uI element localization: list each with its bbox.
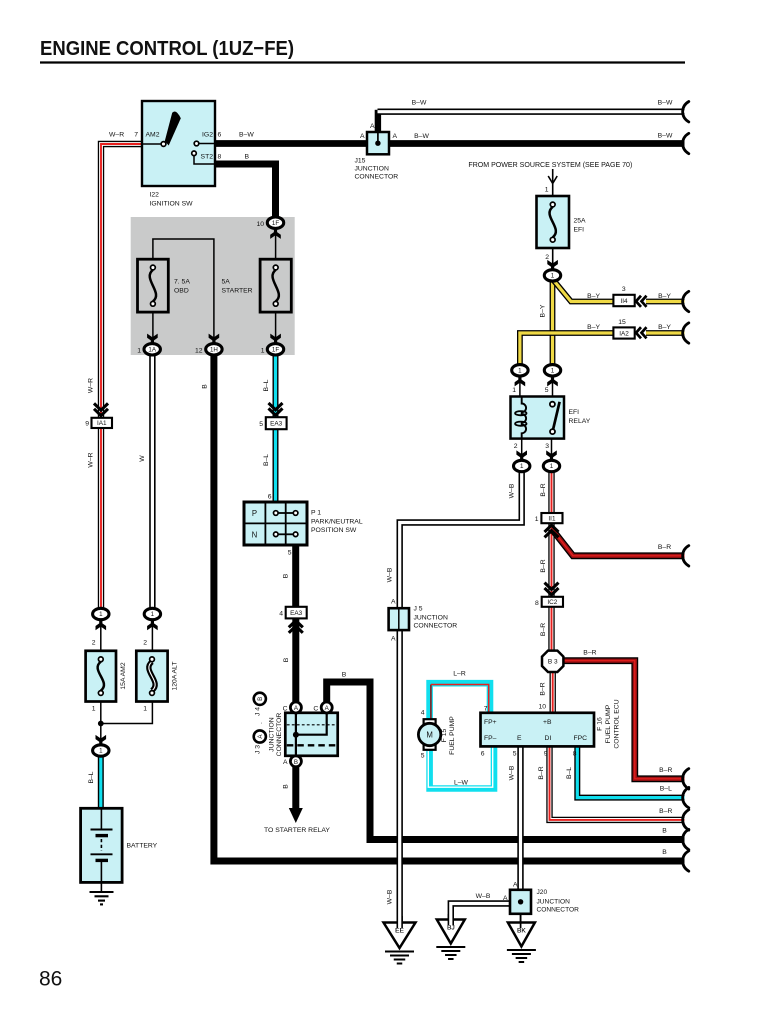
svg-text:B–R: B–R xyxy=(583,650,596,657)
svg-text:EFI: EFI xyxy=(574,226,585,233)
svg-text:B–R: B–R xyxy=(538,766,545,779)
svg-text:STARTER: STARTER xyxy=(222,287,253,294)
connector IA2 (pin 15) xyxy=(613,327,634,338)
wire B-W: ignition IG2 to J15 and right edge (thick) xyxy=(215,140,685,147)
wire W-B: ECU E pin down to J20 xyxy=(517,746,523,890)
arrowhead to starter relay xyxy=(289,808,303,823)
svg-text:B: B xyxy=(257,697,264,701)
wire B: connector 1H down and right to edge xyxy=(214,354,685,861)
svg-text:120A ALT: 120A ALT xyxy=(172,662,179,691)
wire B-L: to battery xyxy=(98,756,104,809)
svg-text:1F: 1F xyxy=(272,347,279,354)
svg-text:1: 1 xyxy=(551,368,555,375)
svg-text:15: 15 xyxy=(618,319,626,326)
battery xyxy=(81,808,123,882)
svg-text:W–R: W–R xyxy=(88,378,95,393)
svg-text:C: C xyxy=(313,705,318,712)
svg-text:1: 1 xyxy=(518,368,522,375)
svg-text:B: B xyxy=(245,154,250,161)
wire thin: J20 to BK ground xyxy=(520,914,522,923)
curl: B ground bus 1 xyxy=(683,829,689,849)
curl: B-L FPC xyxy=(683,787,689,807)
svg-text:7: 7 xyxy=(134,132,138,139)
junction connector J15 xyxy=(367,132,389,154)
ground BJ xyxy=(437,920,465,944)
svg-text:5A: 5A xyxy=(222,278,231,285)
connector ovals above EFI relay xyxy=(512,365,528,376)
svg-text:B–R: B–R xyxy=(540,682,547,695)
svg-text:W–R: W–R xyxy=(88,452,95,467)
svg-text:W–B: W–B xyxy=(509,483,516,498)
svg-text:M: M xyxy=(426,730,433,739)
svg-text:B–R: B–R xyxy=(659,767,672,774)
svg-text:A: A xyxy=(393,133,398,140)
connector oval 1F (pin 10) xyxy=(270,229,281,239)
connector oval above battery xyxy=(96,735,107,745)
svg-text:B: B xyxy=(294,759,298,766)
svg-text:AM2: AM2 xyxy=(146,132,160,139)
svg-text:RELAY: RELAY xyxy=(569,418,591,425)
svg-text:B 3: B 3 xyxy=(548,659,558,666)
connector oval 1F (pin 1) xyxy=(270,334,281,344)
svg-text:1: 1 xyxy=(99,611,103,618)
svg-text:B–L: B–L xyxy=(660,786,672,793)
curl: B-R DI xyxy=(683,810,689,830)
svg-text:A: A xyxy=(360,133,365,140)
svg-text:2: 2 xyxy=(545,254,549,261)
curl: B-W thick continuation xyxy=(683,133,689,153)
svg-text:1: 1 xyxy=(545,186,549,193)
svg-text:J 3: J 3 xyxy=(255,745,262,754)
svg-text:1: 1 xyxy=(512,387,516,394)
svg-text:15A AM2: 15A AM2 xyxy=(120,662,127,689)
connector IC2 (pin 8) xyxy=(545,583,559,595)
connector oval below EFI fuse xyxy=(547,260,558,270)
svg-text:B: B xyxy=(662,849,667,856)
svg-text:B–R: B–R xyxy=(540,623,547,636)
svg-text:12: 12 xyxy=(195,348,203,355)
ground: battery xyxy=(90,891,114,893)
svg-text:B: B xyxy=(283,657,290,662)
svg-text:2: 2 xyxy=(143,640,147,647)
wire L-R: fuel pump to ECU FP+ (highlighted) xyxy=(430,683,490,719)
svg-text:I22: I22 xyxy=(150,192,160,199)
svg-text:1: 1 xyxy=(261,348,265,355)
svg-text:6: 6 xyxy=(481,750,485,757)
svg-text:A: A xyxy=(391,599,396,606)
pin C(A) right xyxy=(321,702,332,713)
svg-text:BATTERY: BATTERY xyxy=(127,843,158,850)
svg-text:1: 1 xyxy=(92,706,96,713)
svg-text:1H: 1H xyxy=(210,347,218,354)
connector oval 1A (pin 1) xyxy=(147,334,158,344)
svg-text:IA1: IA1 xyxy=(97,420,107,427)
svg-text:L–R: L–R xyxy=(453,670,466,677)
svg-text:8: 8 xyxy=(218,154,222,161)
svg-text:B–L: B–L xyxy=(88,771,95,783)
svg-text:B–R: B–R xyxy=(659,808,672,815)
svg-text:A: A xyxy=(370,123,375,130)
svg-text:E: E xyxy=(517,735,522,742)
svg-text:1: 1 xyxy=(151,611,155,618)
svg-text:3: 3 xyxy=(545,443,549,450)
svg-text:B: B xyxy=(202,384,209,389)
svg-text:W–R: W–R xyxy=(109,132,124,139)
svg-text:FUEL PUMP: FUEL PUMP xyxy=(449,716,456,755)
svg-text:CONTROL ECU: CONTROL ECU xyxy=(614,699,621,748)
wire thin: OBD fuse to 1H xyxy=(153,239,214,344)
fuel pump F15 (motor) xyxy=(424,719,436,726)
curl: B-W thin continuation xyxy=(683,102,689,122)
wire B-L: ECU FPC pin to right edge xyxy=(577,746,684,797)
curl: B-R heavy upper xyxy=(683,546,689,566)
connector EA3 (pin 4) xyxy=(286,607,307,619)
contacts N row xyxy=(278,533,294,535)
svg-text:A: A xyxy=(503,895,508,902)
svg-text:8: 8 xyxy=(573,750,577,757)
svg-text:B–W: B–W xyxy=(658,100,673,107)
svg-text:PARK/NEUTRAL: PARK/NEUTRAL xyxy=(311,519,363,526)
svg-text:FPC: FPC xyxy=(574,735,588,742)
svg-text:JUNCTION: JUNCTION xyxy=(355,166,389,173)
curl: B-Y upper xyxy=(683,291,689,311)
wire thin: battery positive to fuses AM2/ALT xyxy=(100,620,102,651)
wire thin: ovals to EFI relay pins 1,5 xyxy=(519,376,521,397)
svg-text:4: 4 xyxy=(279,611,283,618)
svg-text:B: B xyxy=(283,573,290,578)
svg-text:JUNCTION: JUNCTION xyxy=(537,898,571,905)
wire B-L: connector 1F to EA3 to park/neutral SW xyxy=(273,354,279,417)
svg-text:POSITION SW: POSITION SW xyxy=(311,527,357,534)
svg-text:FROM POWER SOURCE SYSTEM (SEE: FROM POWER SOURCE SYSTEM (SEE PAGE 70) xyxy=(468,162,632,169)
svg-text:B–R: B–R xyxy=(540,559,547,572)
svg-text:2: 2 xyxy=(92,640,96,647)
junction node at battery feed xyxy=(98,721,104,727)
svg-text:CONNECTOR: CONNECTOR xyxy=(355,174,399,181)
svg-text:1: 1 xyxy=(550,463,554,470)
contacts P row xyxy=(278,512,294,514)
svg-text:EFI: EFI xyxy=(569,409,580,416)
curl: B-Y lower xyxy=(683,323,689,343)
ground BK xyxy=(508,923,535,947)
curl: B-R from B3 xyxy=(683,769,689,789)
svg-text:F 16: F 16 xyxy=(597,717,604,731)
svg-text:A: A xyxy=(513,882,518,889)
svg-text:CONNECTOR: CONNECTOR xyxy=(414,623,458,630)
svg-text:6: 6 xyxy=(218,132,222,139)
svg-text:ENGINE CONTROL (1UZ−FE): ENGINE CONTROL (1UZ−FE) xyxy=(40,37,294,60)
svg-text:II4: II4 xyxy=(620,298,628,305)
svg-text:5: 5 xyxy=(421,752,425,759)
fuse 15A AM2 xyxy=(86,651,116,702)
svg-text:IA2: IA2 xyxy=(619,330,629,337)
svg-text:10: 10 xyxy=(256,221,264,228)
svg-text:IG2: IG2 xyxy=(202,132,213,139)
svg-text:EA3: EA3 xyxy=(270,421,283,428)
relay switch xyxy=(553,402,560,430)
svg-text:N: N xyxy=(252,531,258,540)
svg-text:2: 2 xyxy=(514,443,518,450)
svg-text:B–L: B–L xyxy=(263,454,270,466)
svg-text:1: 1 xyxy=(551,273,555,280)
svg-text:W–B: W–B xyxy=(386,889,393,904)
svg-text:25A: 25A xyxy=(574,217,587,224)
connector oval above fusible link ALT xyxy=(144,608,160,619)
svg-text:1: 1 xyxy=(137,348,141,355)
svg-text:II1: II1 xyxy=(548,515,556,522)
svg-text:5: 5 xyxy=(288,550,292,557)
svg-text:JUNCTION: JUNCTION xyxy=(269,717,276,751)
svg-text:FP–: FP– xyxy=(484,735,497,742)
svg-text:1A: 1A xyxy=(148,347,156,354)
svg-text:9: 9 xyxy=(85,420,89,427)
svg-text:9: 9 xyxy=(544,750,548,757)
svg-text:1: 1 xyxy=(535,516,539,523)
svg-text:1: 1 xyxy=(520,463,524,470)
fusible link 120A ALT xyxy=(136,651,167,702)
pin C(A) left xyxy=(290,702,301,713)
svg-text:B–L: B–L xyxy=(566,767,573,779)
svg-text:B–Y: B–Y xyxy=(540,304,547,317)
svg-text:86: 86 xyxy=(39,968,62,991)
svg-text:BK: BK xyxy=(517,927,526,934)
wire B: J3/J4 bottom to starter relay arrow xyxy=(292,766,299,810)
svg-text:W–B: W–B xyxy=(386,567,393,582)
svg-text:J 4: J 4 xyxy=(255,707,262,716)
junction block (gray) containing OBD and STARTER fuses xyxy=(131,217,295,355)
svg-text:B–Y: B–Y xyxy=(587,293,600,300)
svg-text:JUNCTION: JUNCTION xyxy=(414,615,448,622)
splice B3 xyxy=(542,651,563,672)
svg-text:6: 6 xyxy=(268,494,272,501)
svg-text:IC2: IC2 xyxy=(547,599,557,606)
connector EA3 (pin 5) xyxy=(269,403,283,415)
svg-text:DI: DI xyxy=(545,735,552,742)
wire W-B: BJ ground to J20 xyxy=(451,904,510,921)
wire B: park/neutral SW pin5 to EA3(4) to J3/J4 xyxy=(292,545,299,607)
svg-text:ST2: ST2 xyxy=(201,154,214,161)
fuel pump control ECU F16 xyxy=(481,713,595,747)
EFI relay xyxy=(511,397,565,439)
wire W-R: ignition AM2 to fuse AM2 via IA1 xyxy=(101,144,142,418)
svg-text:B–Y: B–Y xyxy=(658,324,671,331)
svg-text:1: 1 xyxy=(99,748,103,755)
svg-text:J 5: J 5 xyxy=(414,606,423,613)
svg-text:B–W: B–W xyxy=(658,133,673,140)
junction connectors J3/J4 xyxy=(285,713,337,756)
svg-text:BJ: BJ xyxy=(447,924,455,931)
svg-text:5: 5 xyxy=(513,750,517,757)
pin A(B) bottom xyxy=(290,756,301,767)
wire thin: 1F to STARTER fuse xyxy=(275,224,277,259)
svg-text:7. 5A: 7. 5A xyxy=(174,278,190,285)
svg-text:B–Y: B–Y xyxy=(658,293,671,300)
svg-text:A: A xyxy=(283,759,288,766)
ground EE xyxy=(384,923,416,949)
connector oval above fuse AM2 xyxy=(93,608,109,619)
svg-text:W–B: W–B xyxy=(509,765,516,780)
svg-text:B–W: B–W xyxy=(412,100,427,107)
wire L-W: fuel pump to ECU FP- (highlighted) xyxy=(430,746,494,788)
svg-text:.: . xyxy=(257,722,264,724)
svg-text:B–W: B–W xyxy=(239,132,254,139)
ignition switch I22 xyxy=(142,101,215,186)
connector oval 1H (pin 12) xyxy=(209,334,220,344)
fuse 5A STARTER xyxy=(260,259,291,312)
wire W-B: relay pin2 left and down to EE ground xyxy=(400,472,522,922)
svg-text:CONNECTOR: CONNECTOR xyxy=(537,906,580,913)
svg-text:FP+: FP+ xyxy=(484,719,497,726)
wire B-W: J15 top to right edge (thin) xyxy=(375,110,381,132)
wire B: ignition ST2 down to connector 1F xyxy=(215,164,276,218)
svg-text:W–B: W–B xyxy=(476,893,491,900)
wire B-R: branch from B3 to right edge xyxy=(564,661,685,779)
svg-text:B–L: B–L xyxy=(263,379,270,391)
svg-text:FUEL PUMP: FUEL PUMP xyxy=(605,704,612,743)
junction connector J5 xyxy=(389,608,409,630)
svg-text:CONNECTOR: CONNECTOR xyxy=(276,713,283,757)
svg-text:EE: EE xyxy=(395,927,404,934)
svg-text:B–R: B–R xyxy=(658,544,671,551)
wire: from power source arrow into EFI fuse xyxy=(552,169,554,196)
svg-text:5: 5 xyxy=(545,387,549,394)
ignition switch lever xyxy=(165,111,181,145)
svg-text:4: 4 xyxy=(421,709,425,716)
svg-text:1F: 1F xyxy=(272,220,279,227)
svg-text:B–W: B–W xyxy=(414,133,429,140)
svg-text:B–R: B–R xyxy=(540,483,547,496)
svg-text:L–W: L–W xyxy=(454,779,469,786)
park/neutral position switch P1 xyxy=(244,502,307,545)
svg-text:B–Y: B–Y xyxy=(587,324,600,331)
connector II1 (pin 1) xyxy=(541,513,562,523)
svg-text:5: 5 xyxy=(259,421,263,428)
svg-text:TO STARTER RELAY: TO STARTER RELAY xyxy=(264,827,330,834)
svg-text:B: B xyxy=(283,784,290,789)
fuse 7.5A OBD xyxy=(138,259,169,312)
svg-text:J20: J20 xyxy=(537,889,548,896)
svg-text:1: 1 xyxy=(143,706,147,713)
svg-text:W: W xyxy=(139,455,146,462)
svg-text:B: B xyxy=(662,828,667,835)
svg-text:EA3: EA3 xyxy=(290,610,303,617)
connector II4 (pin 3) xyxy=(613,295,634,306)
svg-text:J15: J15 xyxy=(355,158,366,165)
svg-text:B: B xyxy=(342,672,347,679)
svg-text:+B: +B xyxy=(543,719,552,726)
svg-text:8: 8 xyxy=(535,600,539,607)
circled ref J4 (B) xyxy=(254,693,266,705)
svg-text:IGNITION SW: IGNITION SW xyxy=(150,201,194,208)
junction connector J20 xyxy=(510,890,531,914)
fuse 25A EFI xyxy=(537,196,570,248)
svg-text:C: C xyxy=(283,705,288,712)
svg-text:7: 7 xyxy=(484,705,488,712)
svg-text:A: A xyxy=(391,636,396,643)
wire B-R: heavy branch below II1 to right edge xyxy=(552,529,685,556)
wire W: connector 1A down to fusible link ALT xyxy=(149,354,155,609)
wire B: J3/J4 to right then down to bottom edge run xyxy=(327,682,685,840)
wire B-R: ECU DI pin to right edge xyxy=(550,746,685,820)
svg-text:OBD: OBD xyxy=(174,287,189,294)
svg-text:P: P xyxy=(252,509,257,518)
connector IA1 (pin 9) xyxy=(94,403,108,415)
circled ref J3 (A) xyxy=(254,730,266,742)
wire B-Y: EFI fuse to relay pin5 and branches II4/IA2 xyxy=(550,280,556,365)
svg-text:F 15: F 15 xyxy=(441,728,448,742)
svg-text:P 1: P 1 xyxy=(311,510,321,517)
relay coil xyxy=(522,397,526,439)
svg-text:10: 10 xyxy=(538,704,546,711)
wire B-R: relay pin3 to II1, IC2, B3, ECU +B xyxy=(548,472,554,514)
curl: B ground bus 2 xyxy=(683,851,689,871)
svg-text:3: 3 xyxy=(622,286,626,293)
